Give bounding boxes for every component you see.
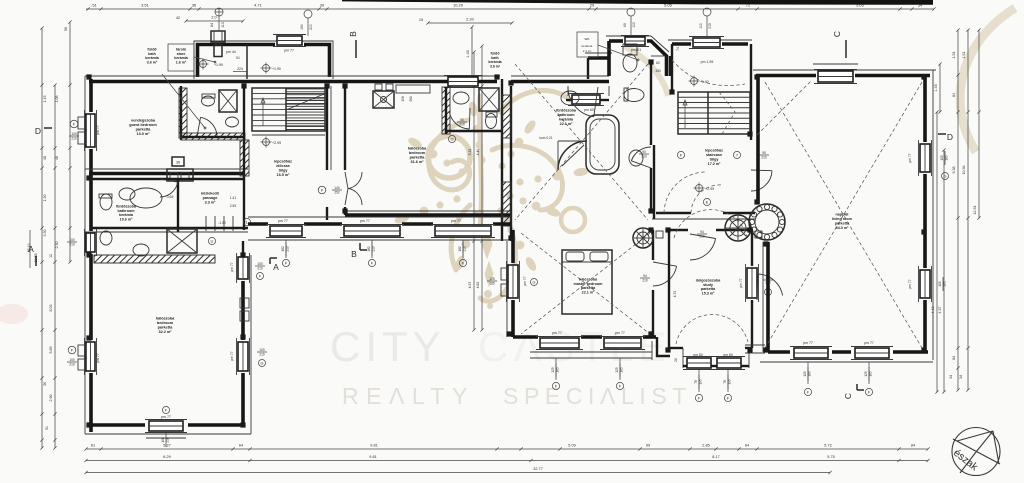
wc window [625, 37, 645, 45]
bottom dimension chain 3 total [86, 472, 830, 474]
svg-text:wc: wc [585, 36, 590, 41]
svg-text:bathroom: bathroom [557, 113, 575, 117]
leader from bath label [162, 74, 205, 128]
svg-text:C: C [832, 31, 842, 37]
living bottom window 2 [855, 348, 889, 358]
svg-text:2.20: 2.20 [466, 18, 473, 22]
secondary top dims [186, 20, 243, 22]
svg-text:94: 94 [700, 230, 704, 234]
svg-text:bedroom: bedroom [157, 321, 174, 325]
svg-text:fürdőszoba: fürdőszoba [116, 204, 137, 208]
svg-text:3.6 m²: 3.6 m² [147, 61, 158, 65]
study porch wall [682, 348, 684, 368]
svg-text:29: 29 [590, 3, 595, 8]
svg-text:pm 77: pm 77 [96, 353, 100, 363]
svg-text:tölgy: tölgy [279, 168, 289, 172]
shower room fixtures [202, 96, 215, 106]
living top wall [753, 69, 936, 71]
corridor bottom line [248, 239, 511, 241]
svg-text:G: G [533, 280, 536, 284]
bottom dimension chain 1 [86, 448, 928, 450]
vertical dim 1.45 right-center [939, 64, 941, 112]
svg-text:4.37: 4.37 [938, 307, 942, 314]
bottom dimension chain 2 [86, 460, 928, 462]
level +2.95 lobby [696, 185, 703, 192]
svg-text:5.75: 5.75 [827, 455, 834, 459]
svg-text:pm 60: pm 60 [584, 108, 594, 112]
svg-text:nappali: nappali [836, 212, 849, 216]
svg-text:6.29: 6.29 [163, 455, 170, 459]
stairs up arrow [684, 100, 686, 128]
svg-text:közlekedő: közlekedő [201, 192, 220, 196]
svg-text:78: 78 [723, 380, 727, 384]
svg-text:36: 36 [43, 382, 47, 386]
stove circle scalloped [749, 204, 785, 240]
watermark pendant [482, 230, 493, 309]
svg-text:2.1 m²: 2.1 m² [583, 49, 592, 53]
living right wall [932, 70, 934, 360]
bathroom22 right wall [650, 62, 652, 145]
svg-text:pm 80: pm 80 [723, 353, 733, 357]
central vertical dim lines [473, 52, 475, 330]
bathroom wall below guest [91, 178, 245, 180]
master window 1 [540, 338, 579, 348]
svg-text:17.2 m²: 17.2 m² [708, 162, 721, 166]
living sw step [745, 344, 765, 346]
svg-text:parketta: parketta [136, 127, 152, 131]
living dashes [765, 82, 922, 348]
svg-text:61: 61 [91, 444, 95, 448]
left dimension chains [41, 28, 43, 448]
svg-text:parketta: parketta [410, 155, 426, 159]
main top wall [85, 75, 500, 77]
stairs break line [719, 92, 735, 134]
bedroom32 right window 2 [238, 342, 248, 371]
svg-text:+1.99: +1.99 [214, 63, 223, 67]
svg-text:2.0: 2.0 [211, 16, 216, 20]
fireplace box [373, 91, 394, 108]
svg-text:5.89: 5.89 [49, 347, 53, 354]
staircase diagonal break [286, 94, 324, 110]
bathroom22 bidet [629, 150, 643, 166]
svg-text:193: 193 [655, 69, 661, 73]
bathroom22 top walls [585, 52, 612, 54]
protrusion outer wall thin [194, 41, 333, 79]
watermark ring small [561, 208, 585, 232]
svg-text:5.09: 5.09 [568, 444, 575, 448]
bath zone fixtures above bedroom [167, 229, 197, 253]
leader line store [194, 57, 215, 62]
svg-text:210: 210 [71, 136, 77, 140]
level mark +2.95 left [263, 139, 270, 146]
stove circle small [633, 228, 653, 248]
svg-text:125: 125 [803, 371, 807, 377]
master terrace lines [530, 351, 652, 353]
svg-text:1.06: 1.06 [55, 96, 59, 103]
svg-text:72: 72 [746, 3, 751, 8]
corridor window dims [285, 240, 287, 258]
master left window [508, 265, 518, 298]
svg-text:210: 210 [259, 352, 265, 356]
svg-text:U: U [211, 238, 214, 243]
study left wall [668, 230, 670, 352]
study dashed arcs [674, 210, 748, 240]
passage walls [177, 179, 179, 232]
passage steps [205, 216, 207, 231]
svg-text:34: 34 [918, 3, 923, 8]
bedroom31 left wall [344, 86, 346, 170]
box 36 [172, 157, 184, 166]
svg-text:bath: bath [148, 52, 156, 56]
svg-text:4.40: 4.40 [476, 149, 480, 156]
lobby door dashed arc [691, 185, 723, 213]
svg-text:SPECIΛLIST: SPECIΛLIST [503, 383, 692, 409]
svg-text:G: G [944, 174, 947, 178]
svg-text:1.45: 1.45 [934, 84, 938, 91]
living right window 1 [920, 144, 930, 172]
svg-text:hálószoba: hálószoba [579, 277, 598, 281]
svg-text:G: G [450, 136, 453, 141]
svg-text:16.5 m²: 16.5 m² [277, 173, 290, 177]
corridor wall with windows [248, 222, 268, 226]
svg-text:30: 30 [320, 3, 325, 8]
svg-text:10.36: 10.36 [962, 166, 966, 175]
svg-text:dolgozószoba: dolgozószoba [696, 278, 722, 282]
svg-text:D: D [35, 126, 41, 136]
protrusion interior divider [246, 45, 248, 80]
study bottom walls [669, 347, 683, 349]
svg-text:182: 182 [281, 246, 285, 252]
svg-text:34: 34 [959, 375, 963, 379]
svg-text:100: 100 [257, 262, 263, 266]
svg-text:pm 77: pm 77 [96, 125, 100, 135]
svg-text:pm301: pm301 [631, 48, 641, 52]
living top window [818, 71, 853, 82]
svg-text:182: 182 [458, 246, 462, 252]
porch window pm80 2 [717, 358, 741, 368]
bathroom22 shower [558, 141, 587, 170]
svg-text:100: 100 [69, 358, 75, 362]
svg-text:4.62: 4.62 [476, 282, 480, 289]
guest bedroom bottom wall [85, 168, 248, 170]
svg-text:store: store [177, 52, 186, 56]
window left wall bedroom [86, 342, 95, 371]
stair block side walls [671, 44, 673, 94]
top dimension chain [86, 8, 934, 10]
svg-text:28: 28 [674, 358, 678, 362]
corridor window 1 [270, 226, 302, 236]
black scan bar top [342, 0, 933, 5]
svg-text:69: 69 [623, 23, 627, 27]
svg-text:1.51: 1.51 [962, 52, 966, 59]
svg-text:56: 56 [64, 27, 68, 31]
svg-text:36: 36 [192, 3, 197, 8]
svg-text:100: 100 [69, 238, 75, 242]
svg-text:pm 77: pm 77 [161, 415, 171, 419]
master window dims [555, 358, 557, 380]
stair block top wall [672, 42, 691, 46]
svg-text:kom 0.21: kom 0.21 [539, 136, 552, 140]
svg-text:54.0 m²: 54.0 m² [836, 226, 849, 230]
corridor window 2 [344, 226, 400, 236]
right dimension chains [957, 30, 959, 390]
svg-text:parketta: parketta [581, 286, 596, 290]
svg-text:182: 182 [367, 246, 371, 252]
svg-text:2.55: 2.55 [230, 204, 236, 208]
bedroom32 top wall hatched [94, 255, 215, 263]
compass rose eszak [952, 428, 1000, 476]
svg-text:210: 210 [69, 362, 75, 366]
svg-text:8.03: 8.03 [49, 305, 53, 312]
svg-text:190: 190 [300, 24, 304, 30]
study right window [747, 268, 757, 298]
lobby walls [653, 145, 655, 219]
small store room [651, 55, 666, 57]
living bottom window 1 [794, 348, 828, 358]
svg-text:+2.95: +2.95 [705, 187, 714, 191]
svg-text:260: 260 [409, 96, 413, 102]
svg-text:32.2 m²: 32.2 m² [158, 330, 172, 334]
bathroom22 toilet [624, 89, 644, 102]
svg-text:3.30: 3.30 [43, 230, 47, 237]
svg-text:pm 77: pm 77 [803, 341, 813, 345]
living left wall lower [766, 242, 770, 352]
shutter boxes [240, 298, 249, 308]
svg-text:REΛLTY: REΛLTY [342, 383, 475, 409]
svg-text:fürdőszoba: fürdőszoba [556, 108, 577, 112]
svg-text:1.51: 1.51 [952, 52, 956, 59]
bottom window steps [143, 433, 189, 435]
svg-text:2.85: 2.85 [702, 444, 709, 448]
bathroom22 dashes [515, 64, 648, 220]
svg-text:1.41: 1.41 [230, 196, 236, 200]
svg-text:guest bedroom: guest bedroom [129, 123, 157, 127]
bathroom22 niche wall with window [567, 86, 569, 96]
svg-text:study: study [703, 283, 714, 287]
svg-text:32.77: 32.77 [533, 467, 543, 471]
svg-text:lépcsőház: lépcsőház [705, 148, 723, 152]
living bottom window dims [807, 362, 809, 384]
svg-text:5.65: 5.65 [856, 3, 865, 8]
svg-text:125: 125 [864, 371, 868, 377]
svg-text:198: 198 [401, 96, 405, 102]
svg-text:A: A [273, 262, 279, 272]
svg-text:9.81: 9.81 [369, 455, 376, 459]
svg-text:kerámia: kerámia [174, 56, 189, 60]
vent symbol stair [703, 8, 711, 16]
ensuite fixtures [453, 92, 469, 104]
svg-text:pm 44: pm 44 [226, 50, 236, 54]
svg-text:64: 64 [239, 444, 243, 448]
stair hall left wall [243, 86, 245, 230]
svg-text:passage: passage [203, 196, 218, 200]
svg-text:94: 94 [643, 274, 647, 278]
study corner squares [656, 231, 663, 238]
svg-text:100: 100 [161, 437, 165, 443]
svg-text:hálószoba: hálószoba [156, 316, 175, 320]
porch window dims [698, 370, 700, 392]
svg-text:E: E [706, 199, 709, 204]
svg-text:pm 77: pm 77 [360, 219, 370, 223]
svg-text:pm 77: pm 77 [739, 278, 743, 287]
level +1.92 [691, 78, 698, 85]
svg-text:113: 113 [699, 23, 703, 28]
svg-text:84: 84 [952, 356, 956, 360]
svg-text:42: 42 [176, 16, 180, 20]
study top wall [668, 229, 688, 231]
svg-text:2.90: 2.90 [49, 395, 53, 402]
passage door [160, 182, 178, 197]
svg-text:3.3 m²: 3.3 m² [205, 201, 216, 205]
wc label box [577, 32, 598, 57]
svg-text:36: 36 [176, 161, 180, 165]
svg-text:pm 80: pm 80 [693, 353, 703, 357]
label tarolo store box [168, 44, 194, 71]
svg-text:5.72: 5.72 [824, 444, 831, 448]
svg-text:A: A [28, 244, 34, 254]
bathroom22 top door arc [568, 87, 594, 117]
svg-text:parketta: parketta [835, 221, 850, 225]
svg-text:pm 77: pm 77 [230, 262, 234, 271]
corridor top thin line [248, 216, 511, 218]
svg-text:B: B [351, 249, 357, 259]
shower room lower wall [181, 136, 245, 138]
svg-text:105: 105 [938, 281, 942, 287]
svg-text:pm 77: pm 77 [451, 219, 461, 223]
svg-text:tölgy: tölgy [710, 157, 720, 161]
svg-text:4.72: 4.72 [673, 291, 677, 298]
svg-text:210: 210 [257, 266, 263, 270]
svg-text:105: 105 [940, 155, 944, 161]
svg-text:staircase: staircase [706, 153, 722, 157]
corner blocks [508, 80, 513, 85]
svg-text:110: 110 [632, 22, 636, 27]
svg-text:kerámia: kerámia [145, 56, 160, 60]
bedroom32 bottom window [149, 421, 183, 431]
svg-text:kerámia: kerámia [582, 44, 593, 48]
watermark ornament mandala [429, 90, 570, 301]
svg-text:pm 77: pm 77 [552, 331, 562, 335]
svg-text:9.81: 9.81 [370, 444, 377, 448]
vent stack chimney [211, 31, 225, 42]
double door to bedroom31 [348, 172, 362, 189]
svg-text:13.0 m²: 13.0 m² [136, 132, 150, 136]
svg-text:95: 95 [762, 151, 766, 155]
svg-text:2.30: 2.30 [55, 242, 59, 249]
bedroom31 bottom wall [345, 210, 511, 212]
svg-text:tároló: tároló [176, 47, 187, 51]
svg-text:hálószoba: hálószoba [408, 146, 427, 150]
svg-text:210: 210 [309, 24, 313, 30]
circled mark ensuite [448, 135, 455, 142]
chimney bump guest [167, 169, 193, 181]
svg-text:84: 84 [952, 93, 956, 97]
svg-text:10.6 m²: 10.6 m² [120, 218, 133, 222]
svg-text:210: 210 [69, 242, 75, 246]
svg-text:+1.90: +1.90 [272, 67, 281, 71]
svg-text:pm 77: pm 77 [284, 49, 294, 53]
svg-text:125: 125 [489, 277, 495, 281]
svg-text:22.1 m²: 22.1 m² [582, 291, 595, 295]
svg-text:vendégszoba: vendégszoba [131, 118, 156, 122]
wc toilet [623, 44, 637, 55]
vertical dim 1.45 left-center [471, 27, 473, 80]
svg-text:1.45: 1.45 [466, 50, 470, 57]
master dashes [521, 233, 650, 334]
window left wall upper [86, 114, 95, 147]
svg-text:100: 100 [71, 132, 77, 136]
svg-text:9.38: 9.38 [952, 167, 956, 174]
ensuite wc walls [442, 87, 450, 134]
svg-text:fürdő: fürdő [147, 47, 157, 51]
master bedroom left wall [511, 230, 515, 263]
svg-text:15: 15 [419, 18, 423, 22]
bathroom fixtures [100, 194, 112, 210]
living right window 2 [920, 270, 930, 298]
vent symbol E1 [215, 8, 223, 16]
bedroom31 top features [375, 84, 382, 90]
svg-text:kerámia: kerámia [559, 117, 574, 121]
svg-text:5.27: 5.27 [163, 444, 170, 448]
svg-text:51: 51 [45, 426, 49, 430]
protrusion window pm77 [277, 36, 302, 45]
window left wall bathroom [86, 233, 95, 252]
svg-text:90: 90 [460, 118, 464, 122]
bedroom32 bottom wall [89, 423, 145, 427]
svg-text:125: 125 [615, 367, 619, 373]
svg-text:78: 78 [694, 380, 698, 384]
watermark arc fragment top right [960, 8, 1015, 152]
recessed wall labels [396, 85, 430, 93]
svg-text:CITY: CITY [330, 323, 446, 370]
stove circle mid [725, 215, 751, 241]
vent symbol E2 [304, 10, 312, 18]
svg-text:pm 77: pm 77 [523, 276, 527, 285]
stairs middle [678, 92, 750, 134]
svg-text:31.6 m²: 31.6 m² [410, 160, 424, 164]
svg-text:10.29: 10.29 [453, 3, 464, 8]
svg-text:15.3 m²: 15.3 m² [702, 292, 715, 296]
svg-text:master bedroom: master bedroom [574, 282, 604, 286]
bedroom32 right window 1 [238, 257, 248, 279]
svg-text:pm 77: pm 77 [908, 153, 912, 162]
left outer wall [84, 76, 86, 434]
svg-text:84: 84 [210, 23, 214, 27]
svg-text:kerámia: kerámia [119, 213, 134, 217]
svg-text:5.33: 5.33 [468, 149, 472, 156]
svg-text:210: 210 [708, 23, 712, 29]
svg-text:living room: living room [832, 217, 853, 221]
svg-text:34: 34 [949, 375, 953, 379]
stair hall landing [252, 134, 325, 136]
bathroom22 fixtures tub [586, 115, 619, 174]
svg-text:.51: .51 [91, 3, 97, 8]
living bottom wall [768, 350, 790, 354]
svg-text:-1.50: -1.50 [218, 221, 226, 225]
bedroom32 outer thin [85, 433, 251, 435]
svg-text:1.30: 1.30 [43, 195, 47, 202]
svg-text:140: 140 [334, 186, 340, 190]
svg-text:3.6 m²: 3.6 m² [490, 64, 501, 68]
svg-text:pm 77: pm 77 [278, 219, 288, 223]
svg-text:8.17: 8.17 [712, 455, 719, 459]
svg-text:B: B [348, 31, 358, 37]
svg-text:99: 99 [646, 444, 650, 448]
dividing wall left-middle [501, 79, 503, 241]
svg-text:125: 125 [551, 367, 555, 373]
svg-text:12.91: 12.91 [973, 206, 977, 215]
svg-text:+2.95: +2.95 [272, 141, 281, 145]
